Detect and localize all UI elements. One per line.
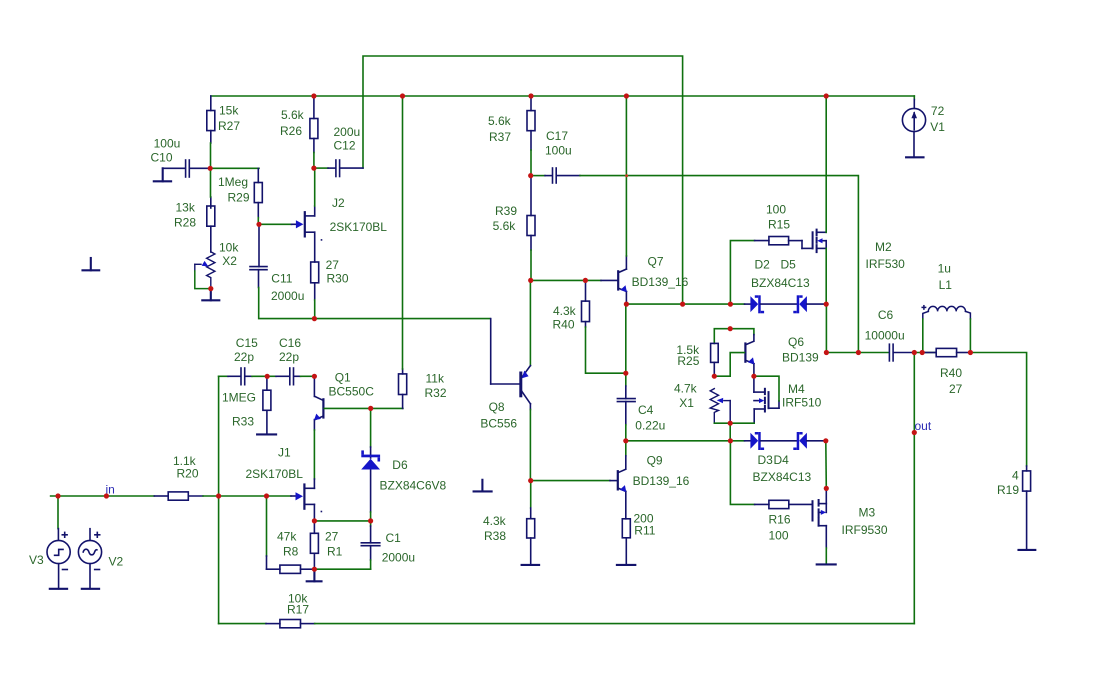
node rail M2 xyxy=(824,93,829,98)
source V3 xyxy=(47,496,70,589)
resistor R37 xyxy=(527,96,535,150)
wire C4 to D3 row xyxy=(626,440,745,442)
node L1 left xyxy=(920,350,925,355)
node J1 source xyxy=(312,518,317,523)
svg-text:M2: M2 xyxy=(875,240,892,254)
ground below R1 xyxy=(307,569,322,581)
svg-text:R32: R32 xyxy=(425,386,447,400)
resistor R29 xyxy=(254,168,262,217)
ground below R33 xyxy=(257,433,276,435)
resistor R20 xyxy=(154,492,203,500)
svg-text:IRF9530: IRF9530 xyxy=(842,523,888,537)
wire V+ rail xyxy=(211,95,915,97)
svg-text:200u: 200u xyxy=(334,125,361,139)
resistor R33 xyxy=(263,376,271,434)
wire feedback left column xyxy=(218,376,220,623)
svg-text:IRF530: IRF530 xyxy=(866,257,906,271)
svg-text:J1: J1 xyxy=(278,446,291,460)
node R8 J1 xyxy=(264,493,269,498)
source V1 xyxy=(913,96,915,100)
svg-text:R39: R39 xyxy=(495,204,517,218)
svg-text:BZX84C13: BZX84C13 xyxy=(753,470,812,484)
node loop 682 xyxy=(680,302,685,307)
node R30 bottom xyxy=(312,316,317,321)
wire R29 to J2 gate xyxy=(259,223,292,225)
wire C11 down to mid rail xyxy=(259,288,315,319)
resistor R1 xyxy=(310,521,318,569)
node D4 right xyxy=(823,438,828,443)
capacitor C6 xyxy=(889,344,914,361)
inductor L1 xyxy=(922,306,970,319)
node out label xyxy=(912,430,917,435)
svg-text:R29: R29 xyxy=(228,191,250,205)
svg-text:4.3k: 4.3k xyxy=(553,304,577,318)
svg-text:BD139: BD139 xyxy=(782,351,819,365)
node out row xyxy=(912,350,917,355)
svg-text:27: 27 xyxy=(326,258,340,272)
resistor R32 xyxy=(399,369,407,408)
mosfet M2 xyxy=(813,230,827,253)
svg-text:D6: D6 xyxy=(392,458,408,472)
svg-text:R40: R40 xyxy=(553,318,575,332)
node L1 right xyxy=(968,350,973,355)
svg-text:22p: 22p xyxy=(234,350,254,364)
svg-text:V2: V2 xyxy=(109,555,124,569)
capacitor C16 xyxy=(267,368,314,385)
resistor R11 xyxy=(622,519,630,565)
resistor R19 xyxy=(1023,471,1031,550)
svg-text:1MEG: 1MEG xyxy=(222,391,256,405)
svg-text:D3: D3 xyxy=(758,453,774,467)
zener diode D4 xyxy=(793,432,807,450)
svg-text:V1: V1 xyxy=(930,120,945,134)
svg-text:D5: D5 xyxy=(781,258,797,272)
potentiometer X1 xyxy=(710,389,730,424)
svg-text:13k: 13k xyxy=(176,200,196,214)
node D3 left xyxy=(728,438,733,443)
svg-text:R16: R16 xyxy=(769,512,791,526)
zener diode D2 xyxy=(745,303,751,305)
node C6 left xyxy=(824,350,829,355)
svg-text:R11: R11 xyxy=(634,524,655,538)
svg-text:1Meg: 1Meg xyxy=(218,175,248,189)
svg-text:Q9: Q9 xyxy=(647,454,663,468)
wire emitter Q1 to J1 drain xyxy=(313,430,315,479)
svg-text:22p: 22p xyxy=(279,350,299,364)
svg-text:M3: M3 xyxy=(859,506,876,520)
mosfet M3 xyxy=(813,488,827,548)
svg-text:X2: X2 xyxy=(222,254,237,268)
svg-text:BD139_16: BD139_16 xyxy=(633,474,690,488)
svg-text:C12: C12 xyxy=(334,139,356,153)
resistor R40 27 xyxy=(922,348,970,356)
svg-text:72: 72 xyxy=(931,104,945,118)
svg-text:R17: R17 xyxy=(287,603,309,617)
wire C6 output row xyxy=(826,352,888,354)
resistor R40 4.3k xyxy=(582,280,590,327)
resistor R8 xyxy=(266,496,268,556)
wire D4 to M3 xyxy=(825,441,828,489)
transistor Q9 xyxy=(610,441,626,519)
resistor R16 xyxy=(730,441,754,505)
node C16 Q1 xyxy=(312,374,317,379)
ground below X2 xyxy=(202,289,219,301)
svg-text:C17: C17 xyxy=(546,129,568,143)
node R1 gnd xyxy=(312,567,317,572)
ground at C10 xyxy=(154,168,171,181)
node R26 C12 xyxy=(311,166,316,171)
svg-text:Q1: Q1 xyxy=(335,371,351,385)
node R39 Q8 xyxy=(528,278,533,283)
wire J1 source row xyxy=(314,520,370,522)
wire C1 bottom to R1 xyxy=(314,568,370,570)
svg-text:10k: 10k xyxy=(219,241,239,255)
svg-text:J2: J2 xyxy=(332,196,345,210)
wire top loop horizontal xyxy=(363,56,683,304)
svg-text:C16: C16 xyxy=(279,336,301,350)
svg-text:R38: R38 xyxy=(484,529,506,543)
mosfet M4 xyxy=(754,376,779,423)
svg-text:4: 4 xyxy=(1012,469,1019,483)
zener diode D6 xyxy=(370,408,372,447)
svg-text:R28: R28 xyxy=(174,215,196,229)
wire out column xyxy=(913,353,915,624)
capacitor C4 xyxy=(625,304,627,386)
node Q8 R38 xyxy=(528,478,533,483)
svg-text:5.6k: 5.6k xyxy=(493,219,517,233)
svg-text:100: 100 xyxy=(769,528,789,542)
node rail R26 xyxy=(311,93,316,98)
svg-text:R27: R27 xyxy=(218,119,240,133)
svg-text:2SK170BL: 2SK170BL xyxy=(246,467,304,481)
svg-text:C10: C10 xyxy=(151,151,173,165)
resistor R30 xyxy=(311,262,319,300)
wire C17 row to right column xyxy=(580,176,858,353)
resistor R38 xyxy=(527,481,535,565)
transistor Q1 xyxy=(314,376,323,430)
wire Q8 collector to Q9 base xyxy=(531,480,610,482)
wire Q7 base row xyxy=(531,279,601,281)
resistor R28 xyxy=(207,197,215,252)
svg-text:BD139_16: BD139_16 xyxy=(632,275,689,289)
svg-text:47k: 47k xyxy=(277,530,297,544)
svg-text:5.6k: 5.6k xyxy=(488,114,512,128)
svg-text:C4: C4 xyxy=(638,403,654,417)
svg-text:5.6k: 5.6k xyxy=(281,108,305,122)
node V3 in xyxy=(55,493,60,498)
svg-text:15k: 15k xyxy=(219,104,239,118)
resistor R26 xyxy=(310,96,318,153)
Q6 block top wires xyxy=(714,329,754,344)
wire out junctions xyxy=(914,352,936,354)
tiny junction speck at C17 crossing xyxy=(625,174,628,177)
node rail R32 xyxy=(400,93,405,98)
node C15 R33 xyxy=(265,374,270,379)
node Q6 emitter xyxy=(751,374,756,379)
zener diode D3 xyxy=(745,440,751,442)
capacitor C1 xyxy=(370,521,372,526)
svg-text:R19: R19 xyxy=(997,483,1019,497)
node Q7 base xyxy=(583,278,588,283)
svg-text:11k: 11k xyxy=(426,372,445,386)
transistor J1 xyxy=(291,485,314,521)
svg-text:2000u: 2000u xyxy=(271,289,304,303)
svg-text:100u: 100u xyxy=(545,144,572,158)
node Q6 top xyxy=(728,326,733,331)
svg-text:M4: M4 xyxy=(788,382,805,396)
svg-text:R20: R20 xyxy=(177,467,199,481)
svg-text:Q7: Q7 xyxy=(648,255,664,269)
wire mid rail to Q8 base riser xyxy=(314,318,489,320)
svg-text:IRF510: IRF510 xyxy=(782,396,822,410)
wire Q6 base xyxy=(714,353,744,377)
wire C15 row left corner xyxy=(219,375,228,377)
resistor R17 feedback xyxy=(219,620,301,628)
node in label xyxy=(104,493,109,498)
wire Q6 block to D3 row xyxy=(729,423,731,441)
speck near J1 xyxy=(321,511,323,513)
svg-text:27: 27 xyxy=(325,530,339,544)
transistor J2 xyxy=(292,168,315,262)
capacitor C10 xyxy=(163,160,208,177)
svg-text:C6: C6 xyxy=(878,308,894,322)
svg-text:C15: C15 xyxy=(236,336,258,350)
svg-text:R30: R30 xyxy=(327,271,349,285)
node D2 left xyxy=(728,302,733,307)
svg-text:BZX84C6V8: BZX84C6V8 xyxy=(380,479,447,493)
svg-text:D4: D4 xyxy=(774,453,790,467)
wire Q1 base line xyxy=(324,407,403,409)
capacitor C12 xyxy=(315,160,363,177)
transistor Q8 xyxy=(491,280,531,409)
lone ground left xyxy=(83,258,100,270)
svg-text:R37: R37 xyxy=(489,130,511,144)
svg-text:10000u: 10000u xyxy=(865,329,905,343)
wire between D2 D5 xyxy=(761,303,797,305)
speck near J2 xyxy=(321,239,323,241)
capacitor C11 xyxy=(250,224,267,287)
svg-text:4.3k: 4.3k xyxy=(483,514,507,528)
svg-text:2000u: 2000u xyxy=(382,551,415,565)
svg-text:100u: 100u xyxy=(154,137,181,151)
svg-text:R15: R15 xyxy=(768,218,790,232)
wire dot168 to R29 xyxy=(210,167,259,169)
node C17 C6 xyxy=(856,350,861,355)
resistor R27 xyxy=(207,96,215,143)
node C4 R40 xyxy=(623,371,628,376)
svg-text:R8: R8 xyxy=(283,545,299,559)
node rail Q7 xyxy=(624,93,629,98)
svg-text:2SK170BL: 2SK170BL xyxy=(330,220,388,234)
node X2 bottom xyxy=(208,286,213,291)
resistor R25 xyxy=(711,343,719,376)
svg-text:C11: C11 xyxy=(271,272,292,286)
svg-text:R1: R1 xyxy=(327,545,343,559)
svg-text:BC550C: BC550C xyxy=(329,385,375,399)
svg-text:D2: D2 xyxy=(755,258,771,272)
node rail R37 xyxy=(528,93,533,98)
node R25 X1 xyxy=(712,374,717,379)
wire R40 to R19 xyxy=(970,353,1026,467)
svg-text:Q6: Q6 xyxy=(788,335,804,349)
svg-text:100: 100 xyxy=(766,203,786,217)
svg-text:X1: X1 xyxy=(679,396,694,410)
svg-text:R25: R25 xyxy=(677,354,699,368)
node X1 bottom xyxy=(728,421,733,426)
svg-text:27: 27 xyxy=(949,382,963,396)
svg-text:V3: V3 xyxy=(29,553,44,567)
transistor Q6 xyxy=(745,335,754,377)
svg-text:C1: C1 xyxy=(386,531,402,545)
svg-text:R40: R40 xyxy=(940,366,962,380)
resistor R15 xyxy=(730,241,754,305)
svg-text:Q8: Q8 xyxy=(489,400,505,414)
node fb column xyxy=(216,493,221,498)
svg-text:out: out xyxy=(915,419,932,433)
wire Q7 emitter row xyxy=(626,303,744,305)
node D5 right xyxy=(824,302,829,307)
svg-text:1u: 1u xyxy=(938,262,951,276)
node C1 top xyxy=(368,518,373,523)
svg-text:L1: L1 xyxy=(939,278,953,292)
node Q7 emitter xyxy=(624,302,629,307)
wire R20 to J1 xyxy=(203,495,291,497)
potentiometer X2 xyxy=(195,252,215,289)
svg-text:BZX84C13: BZX84C13 xyxy=(751,276,810,290)
svg-text:R26: R26 xyxy=(280,124,302,138)
svg-text:BC556: BC556 xyxy=(480,417,517,431)
zener diode D5 xyxy=(793,295,807,313)
wire X1 bottom row xyxy=(714,422,754,424)
node C10 R27 xyxy=(208,166,213,171)
svg-text:R33: R33 xyxy=(232,415,254,429)
svg-text:0.22u: 0.22u xyxy=(635,419,665,433)
wire between D3 D4 xyxy=(761,440,797,442)
node M3 drain xyxy=(824,486,829,491)
node R37 C17 xyxy=(528,173,533,178)
wire M2 source to C6 row xyxy=(825,304,827,352)
lone ground near Q8 xyxy=(474,480,492,492)
capacitor C15 xyxy=(241,368,267,385)
node R29 J2 xyxy=(256,222,261,227)
capacitor C17 xyxy=(531,168,580,183)
svg-text:4.7k: 4.7k xyxy=(674,382,698,396)
resistor R39 xyxy=(527,176,535,250)
source V2 xyxy=(78,529,101,589)
transistor Q7 xyxy=(601,256,626,304)
node D6 top xyxy=(368,406,373,411)
node C4 Q9 xyxy=(623,438,628,443)
input wire row xyxy=(51,495,155,497)
